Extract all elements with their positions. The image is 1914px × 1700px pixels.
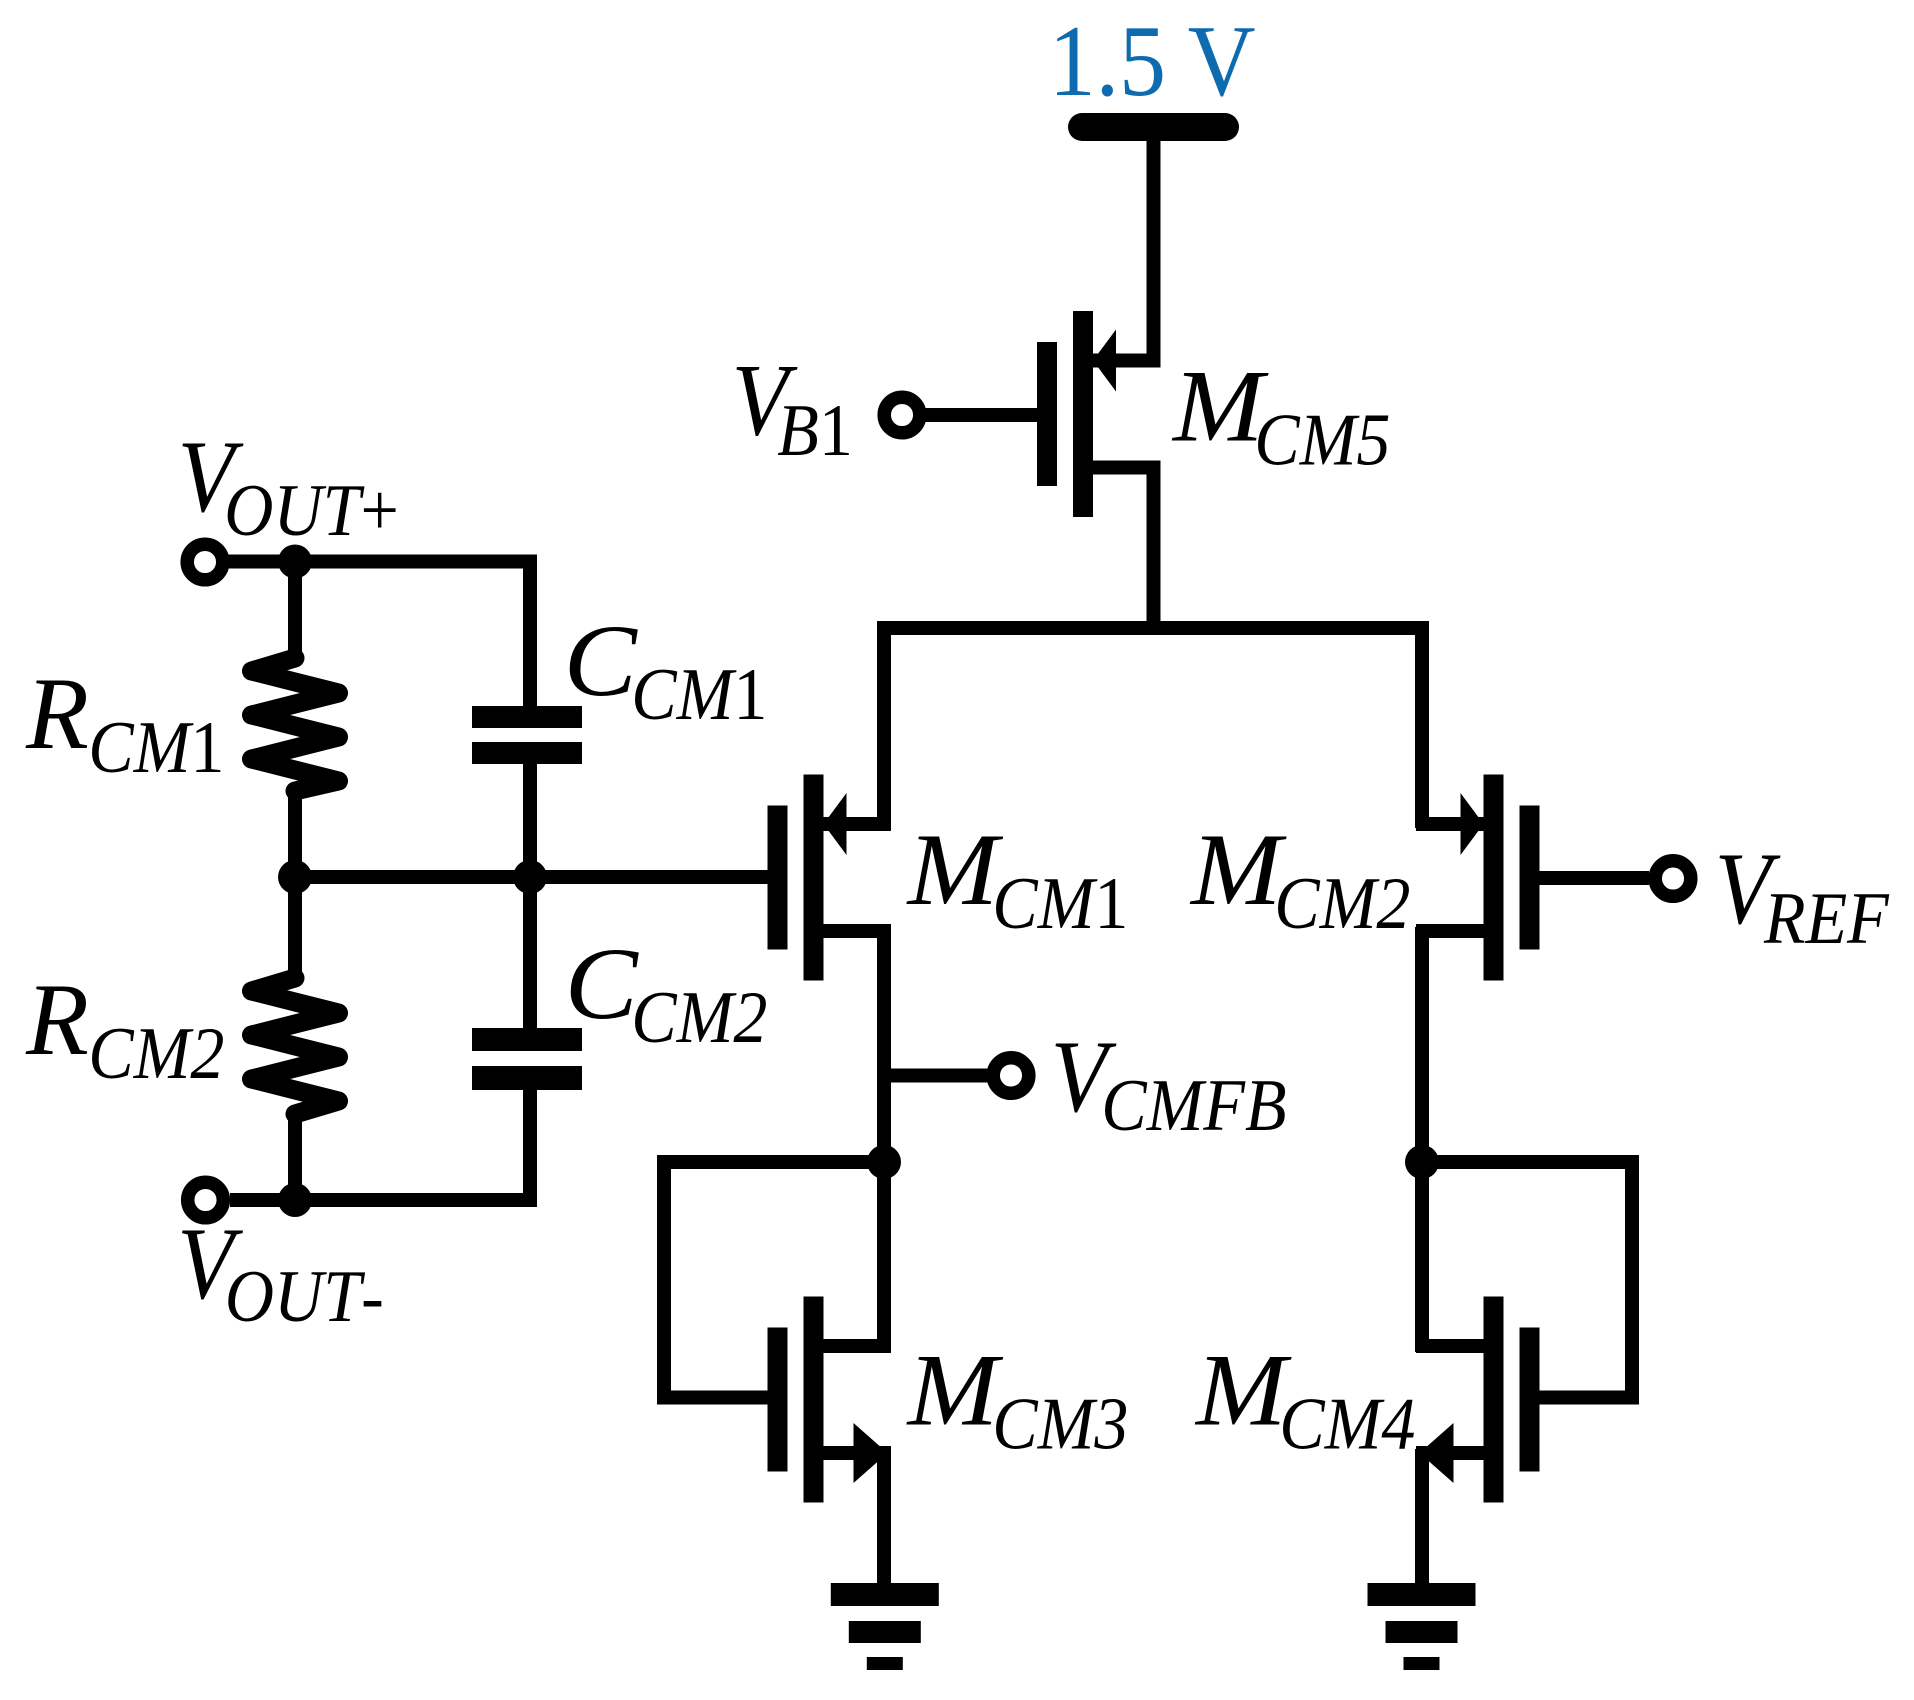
svg-text:CM5: CM5 [1254, 400, 1390, 481]
svg-text:M: M [906, 1333, 1005, 1447]
svg-text:CM4: CM4 [1279, 1384, 1415, 1465]
svg-text:CM3: CM3 [992, 1384, 1128, 1465]
svg-text:R: R [25, 657, 89, 771]
svg-text:C: C [565, 927, 639, 1041]
svg-text:CM2: CM2 [1274, 863, 1410, 944]
svg-text:M: M [906, 813, 1005, 927]
svg-text:CM1: CM1 [88, 707, 224, 788]
svg-text:M: M [1194, 1333, 1293, 1447]
svg-text:CM2: CM2 [631, 977, 767, 1058]
svg-text:M: M [1189, 813, 1288, 927]
svg-text:OUT+: OUT+ [224, 470, 399, 551]
svg-text:B1: B1 [777, 390, 853, 471]
svg-text:OUT-: OUT- [225, 1256, 384, 1337]
svg-text:C: C [564, 604, 638, 718]
svg-text:R: R [25, 963, 89, 1077]
svg-text:1.5 V: 1.5 V [1049, 5, 1256, 117]
svg-text:CM2: CM2 [88, 1013, 224, 1094]
svg-text:CMFB: CMFB [1101, 1065, 1286, 1146]
svg-text:CM1: CM1 [631, 654, 767, 735]
svg-text:CM1: CM1 [992, 863, 1128, 944]
svg-text:REF: REF [1763, 878, 1890, 959]
